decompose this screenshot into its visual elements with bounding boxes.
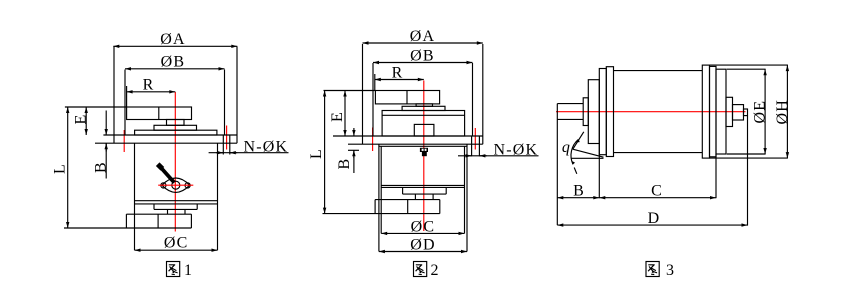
ring F fig3 bbox=[710, 66, 717, 156]
plate A fig3 bbox=[583, 98, 588, 126]
stub fig3 bbox=[744, 109, 748, 116]
node eye crosshair fig1 bbox=[158, 184, 193, 186]
svg-text:E: E bbox=[329, 111, 346, 122]
svg-text:D: D bbox=[648, 210, 661, 227]
svg-text:B: B bbox=[573, 183, 585, 200]
wire top extension fig2 bbox=[324, 90, 376, 92]
dimension D fig3 bbox=[557, 224, 747, 226]
dimension N-øK fig1 bbox=[209, 152, 289, 154]
svg-text:L: L bbox=[308, 148, 325, 159]
dimension øD fig2 bbox=[379, 251, 467, 253]
dimension øB fig1 bbox=[125, 68, 225, 70]
bottom flange fig1 bbox=[126, 213, 191, 215]
dimension L fig2 bbox=[324, 91, 326, 214]
dimension N-øK fig2 bbox=[458, 155, 539, 157]
dimension R fig1 bbox=[127, 91, 176, 93]
cylinder fig3 bbox=[614, 70, 703, 72]
node centerline fig2 bbox=[423, 81, 425, 232]
dimension B fig3 bbox=[557, 197, 599, 199]
wire extension left fig3 bbox=[556, 104, 558, 226]
step1 bottom fig1 bbox=[153, 204, 155, 210]
neck fig2 bbox=[416, 104, 432, 106]
flange fig1 bbox=[103, 134, 237, 136]
svg-text:B: B bbox=[336, 158, 353, 170]
lever handle fig1 bbox=[158, 165, 174, 183]
wire L extension bottom fig1 bbox=[64, 227, 191, 229]
svg-text:ØE: ØE bbox=[752, 100, 769, 124]
bottom flange fig2 bbox=[375, 199, 440, 201]
svg-text:3: 3 bbox=[666, 262, 675, 279]
svg-text:ØB: ØB bbox=[161, 53, 186, 70]
dimension R fig2 bbox=[375, 79, 424, 81]
wire extension B/C fig3 bbox=[598, 144, 600, 199]
svg-text:ØC: ØC bbox=[411, 218, 436, 235]
neck fig1 bbox=[167, 120, 185, 126]
dimension øC fig2 bbox=[381, 232, 464, 234]
oil sight eye fig1 bbox=[162, 178, 190, 192]
body fig1 bbox=[134, 143, 136, 250]
ring E fig3 bbox=[702, 65, 709, 158]
svg-text:E: E bbox=[73, 114, 90, 125]
dimension B fig2 bbox=[353, 128, 355, 136]
step fig2 bbox=[402, 106, 445, 110]
svg-text:ØA: ØA bbox=[410, 28, 436, 45]
dimension C fig3 bbox=[599, 197, 716, 199]
step fig1 bbox=[154, 125, 197, 130]
node centerline fig1 bbox=[174, 92, 176, 232]
dimension øH fig3 bbox=[710, 64, 788, 66]
hub fig3 bbox=[726, 97, 733, 126]
node bolt centerline left fig2 bbox=[372, 128, 374, 152]
body bottom fig2 bbox=[381, 184, 464, 186]
svg-text:1: 1 bbox=[184, 262, 193, 279]
node centerline fig3 bbox=[556, 111, 746, 113]
ring D fig3 bbox=[606, 67, 613, 157]
plate fig1 bbox=[135, 130, 217, 135]
step2 bottom fig2 bbox=[414, 194, 416, 200]
node bolt centerline right fig1 bbox=[226, 126, 228, 150]
node bolt centerline left fig1 bbox=[123, 130, 125, 152]
svg-text:L: L bbox=[52, 163, 69, 174]
motor cap fig2 bbox=[375, 91, 439, 104]
dimension E fig1 bbox=[85, 107, 87, 135]
node bolt centerline right fig2 bbox=[474, 128, 476, 150]
caption 图1 bbox=[167, 262, 180, 277]
svg-text:ØC: ØC bbox=[164, 235, 189, 252]
ring C fig3 bbox=[599, 69, 606, 155]
plug fig2 bbox=[420, 148, 428, 152]
caption 图3 bbox=[646, 262, 659, 277]
inner box fig2 bbox=[414, 124, 434, 136]
svg-text:ØA: ØA bbox=[160, 31, 186, 48]
bolt hole N-øK fig1 bbox=[222, 135, 224, 155]
block fig2 bbox=[382, 111, 465, 137]
body fig2 bbox=[378, 144, 380, 251]
dimension E fig2 bbox=[344, 91, 346, 137]
step1 bottom fig2 bbox=[402, 187, 404, 194]
svg-text:R: R bbox=[143, 77, 155, 94]
plate B fig3 bbox=[588, 80, 599, 144]
svg-text:R: R bbox=[392, 64, 404, 81]
step2 bottom fig1 bbox=[167, 209, 169, 214]
motor cap fig1 bbox=[127, 107, 192, 120]
svg-text:C: C bbox=[651, 183, 663, 200]
svg-text:N-ØK: N-ØK bbox=[244, 139, 289, 156]
bolt hole N-øK fig2 bbox=[471, 136, 473, 156]
dimension øB fig2 bbox=[373, 62, 473, 64]
shaft fig3 bbox=[557, 103, 583, 105]
rear plate fig3 bbox=[716, 69, 726, 154]
svg-text:ØD: ØD bbox=[410, 236, 436, 253]
wire L extension bottom fig2 bbox=[323, 213, 440, 215]
svg-text:ØB: ØB bbox=[410, 47, 435, 64]
svg-text:q: q bbox=[562, 139, 571, 156]
svg-text:2: 2 bbox=[431, 262, 440, 279]
dimension øA fig1 bbox=[113, 45, 237, 47]
wire top extension fig1 bbox=[65, 106, 127, 108]
dimension øE fig3 bbox=[727, 68, 766, 70]
dimension øC fig1 bbox=[135, 249, 218, 251]
dimension B fig1 bbox=[105, 111, 107, 136]
angle q fig3 bbox=[573, 132, 584, 149]
svg-text:N-ØK: N-ØK bbox=[494, 142, 539, 159]
dimension øA fig2 bbox=[363, 42, 483, 44]
dimension L fig1 bbox=[67, 107, 69, 228]
svg-text:ØH: ØH bbox=[774, 99, 791, 125]
svg-text:B: B bbox=[93, 161, 110, 173]
flange fig2 bbox=[333, 135, 483, 137]
caption 图2 bbox=[414, 262, 427, 277]
